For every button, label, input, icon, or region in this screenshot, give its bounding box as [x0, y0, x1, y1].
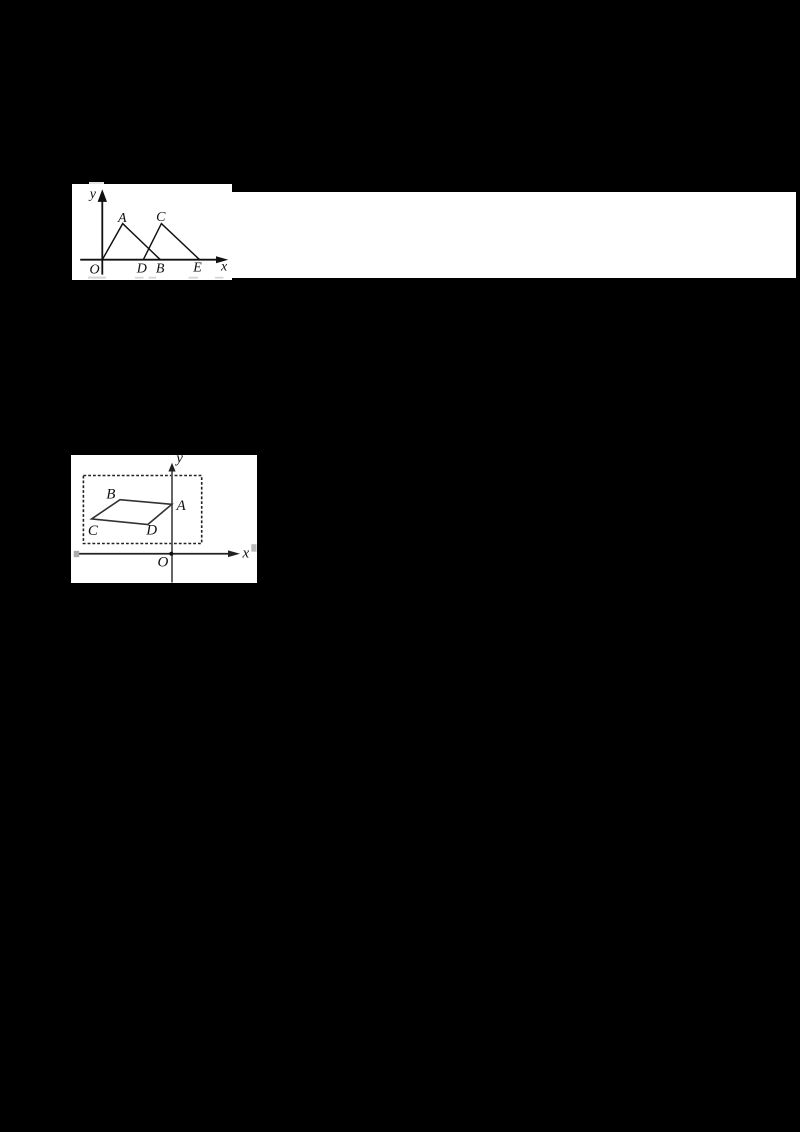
svg-text:y: y: [88, 187, 97, 202]
svg-text:x: x: [220, 259, 228, 274]
svg-text:A: A: [117, 211, 127, 226]
svg-text:B: B: [106, 487, 115, 503]
white band (empty highlighted line right of figure 1): [232, 192, 796, 278]
svg-text:B: B: [156, 261, 165, 276]
x-axis arrowhead: [216, 256, 228, 263]
triangle DCE: [143, 224, 199, 260]
origin dot: [169, 552, 173, 556]
y-axis arrowhead: [98, 189, 107, 202]
svg-text:C: C: [88, 523, 99, 539]
svg-text:O: O: [90, 263, 100, 278]
triangle OAB: [102, 224, 160, 260]
x-axis: [80, 259, 219, 261]
x-axis arrowhead: [228, 550, 240, 557]
y-axis: [171, 469, 173, 583]
left selection handle: [74, 551, 80, 557]
dashed rectangle: [83, 476, 201, 544]
svg-text:x: x: [242, 546, 250, 562]
svg-text:y: y: [174, 455, 183, 467]
y-axis: [101, 198, 103, 275]
svg-text:D: D: [145, 523, 157, 539]
faint gray artifact above figure 1: [89, 182, 104, 187]
svg-text:C: C: [156, 210, 166, 225]
faint ghost marks along bottom edge: [88, 277, 224, 279]
right selection handle: [251, 544, 256, 552]
figure 1: two triangles on x-axis: [72, 184, 232, 280]
figure 2: parallelogram ABCD with dashed rect: [71, 455, 257, 583]
y-axis arrowhead: [168, 463, 175, 472]
svg-text:D: D: [136, 262, 147, 277]
x-axis: [79, 553, 231, 555]
parallelogram ABCD: [92, 500, 172, 525]
svg-text:A: A: [176, 498, 187, 514]
svg-text:E: E: [192, 260, 202, 275]
svg-text:O: O: [158, 554, 169, 570]
